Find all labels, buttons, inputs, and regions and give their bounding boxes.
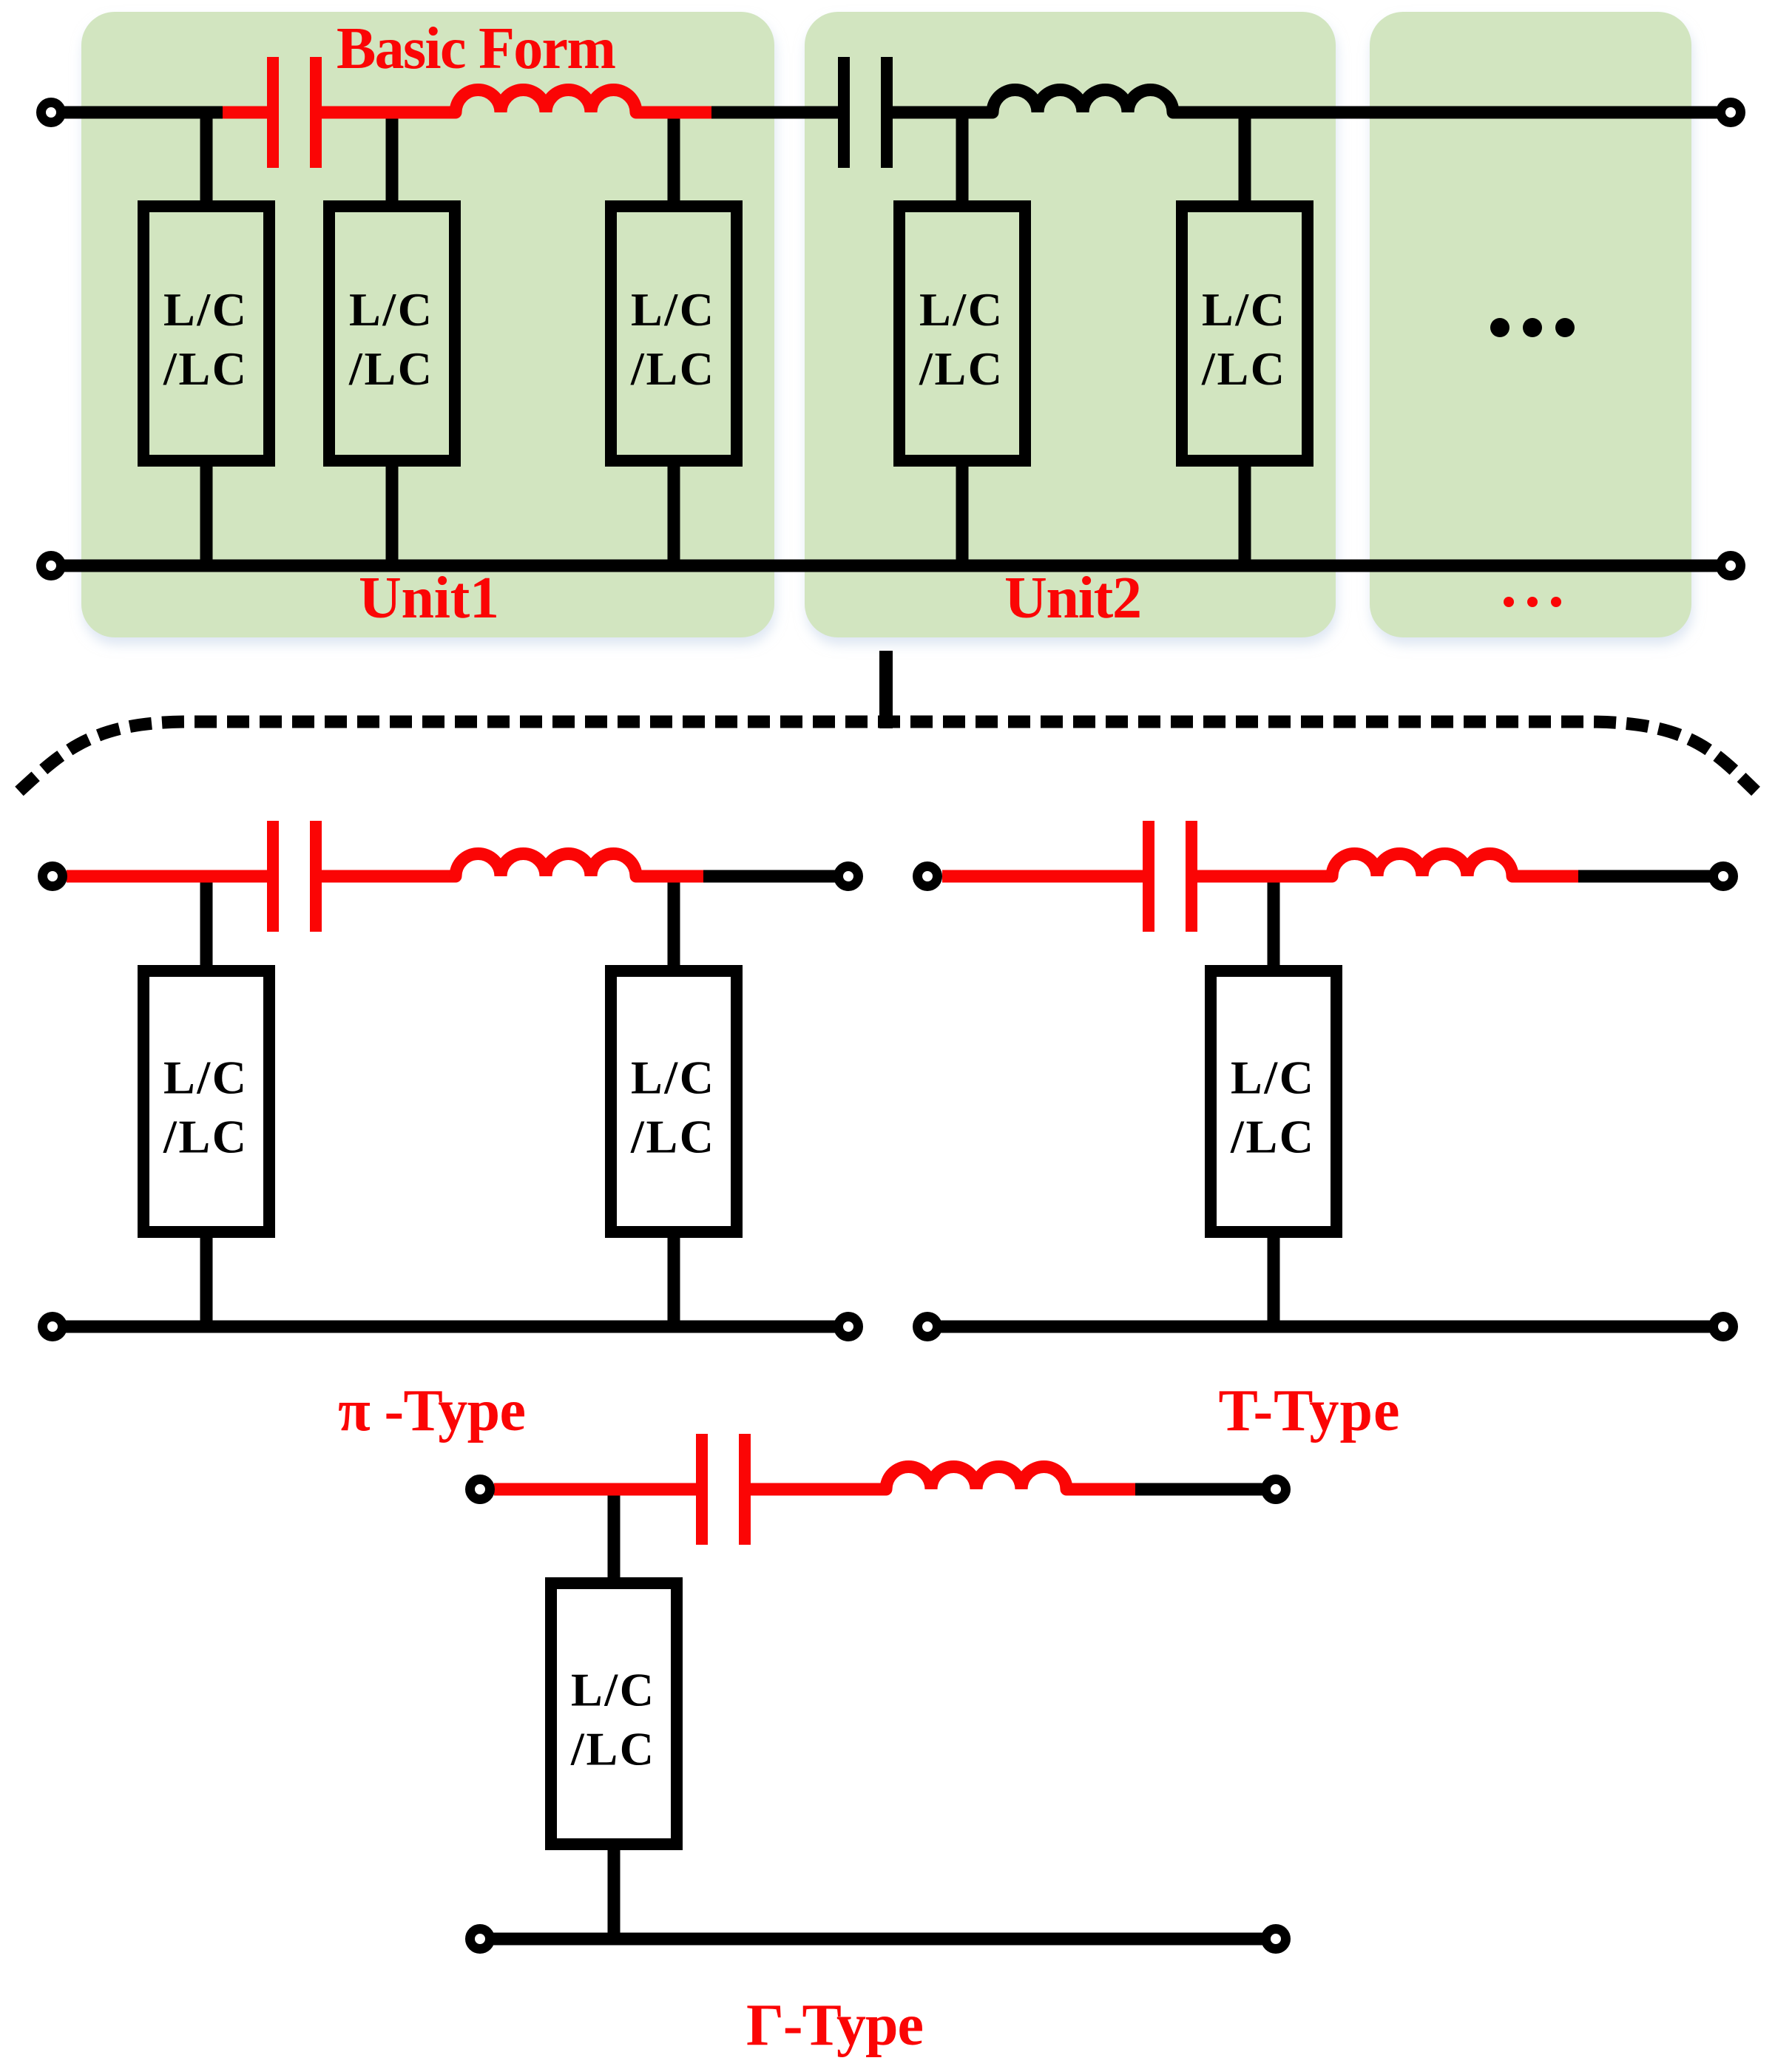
- inductor L2 (Unit2 series): [993, 89, 1173, 112]
- wire: Gamma-type shunt stub top: [608, 1489, 621, 1577]
- wire: shunt stub bottom of box 2: [386, 467, 399, 566]
- wire top rail: input terminal to C1 (black): [51, 106, 223, 119]
- shunt element box Z4: [899, 206, 1025, 461]
- wire Gamma-type top: red segment from input: [494, 1483, 696, 1496]
- wire node C: L1 out (red tail): [636, 106, 711, 119]
- terminal pi-type top-right: [839, 867, 859, 887]
- value label L/C /LC of box Z2: [348, 283, 432, 395]
- wire top rail: L2 to output terminal: [1173, 106, 1731, 119]
- svg-text:/LC: /LC: [1201, 342, 1285, 395]
- wire pi-type node: C to L (red): [322, 870, 456, 883]
- terminal T-type bottom-right: [1714, 1317, 1734, 1337]
- wire pi-type bottom rail: [53, 1321, 848, 1333]
- wire: pi-type left shunt stub bottom: [200, 1238, 213, 1327]
- svg-text:Unit2: Unit2: [1004, 566, 1142, 631]
- Unit2 highlight box: [805, 12, 1336, 637]
- svg-text:/LC: /LC: [630, 1111, 714, 1163]
- inductor L (Gamma-type series, red): [886, 1466, 1066, 1489]
- terminal Gamma-type bottom-right: [1266, 1929, 1286, 1949]
- ellipsis dots (more units, black): [1490, 318, 1575, 337]
- Unit1 highlight box: [81, 12, 774, 637]
- terminal Gamma-type top-right: [1266, 1480, 1286, 1500]
- svg-text:/LC: /LC: [1230, 1111, 1313, 1163]
- wire node B: C1 to L1 (red): [322, 106, 456, 119]
- value label L/C /LC of box pi-right: [630, 1052, 714, 1163]
- capacitor C2 (Unit2 series): [838, 57, 850, 168]
- terminal Gamma-type top-left: [470, 1480, 490, 1500]
- svg-text:L/C: L/C: [919, 283, 1002, 336]
- value label L/C /LC of box Z3: [630, 283, 714, 395]
- terminal pi-type top-left: [43, 867, 63, 887]
- ellipsis dots (unit label, red): [1504, 597, 1561, 607]
- svg-text:/LC: /LC: [348, 342, 432, 395]
- wire bottom rail (common return): [51, 560, 1731, 572]
- input terminal bottom-left: [41, 556, 61, 576]
- value label L/C /LC of box Gamma-shunt: [570, 1664, 654, 1775]
- shunt element box Z3: [611, 206, 737, 461]
- capacitor C (Gamma-type series, red): [696, 1434, 708, 1545]
- value label L/C /LC of box Z1: [163, 283, 246, 395]
- shunt element box Z2: [329, 206, 455, 461]
- svg-text:/LC: /LC: [163, 342, 246, 395]
- svg-text:T-Type: T-Type: [1219, 1378, 1400, 1443]
- svg-text:Basic Form: Basic Form: [337, 16, 616, 81]
- wire pi-type: L red tail: [636, 870, 703, 883]
- value label L/C /LC of box pi-left: [163, 1052, 246, 1163]
- capacitor C1 (Unit1 series, red): [267, 57, 279, 168]
- value label L/C /LC of box T-shunt: [1230, 1052, 1313, 1163]
- wire pi-type top: black tail to output: [703, 870, 848, 883]
- svg-text:L/C: L/C: [163, 1052, 246, 1104]
- wire: shunt stub bottom of box 3: [668, 467, 680, 566]
- output terminal top-right: [1721, 103, 1741, 123]
- wire: shunt stub bottom of box 5: [1239, 467, 1251, 566]
- svg-text:L/C: L/C: [571, 1664, 654, 1716]
- output terminal bottom-right: [1721, 556, 1741, 576]
- wire top rail: Unit1 to C2 (black): [711, 106, 838, 119]
- wire: T-type shunt stub bottom: [1268, 1238, 1280, 1327]
- wire top rail: highlighted red segment into C1: [223, 106, 267, 119]
- dashed expansion brace: [19, 722, 1756, 791]
- svg-text:/LC: /LC: [630, 342, 714, 395]
- capacitor C (pi-type series, red): [267, 821, 279, 932]
- wire: T-type shunt stub top: [1268, 876, 1280, 965]
- wire: shunt stub top of box 5: [1239, 112, 1251, 200]
- shunt element box Z1: [143, 206, 269, 461]
- svg-text:L/C: L/C: [349, 283, 432, 336]
- svg-text:L/C: L/C: [631, 1052, 714, 1104]
- inductor L (pi-type series, red): [456, 853, 636, 876]
- wire: pi-type left shunt stub top: [200, 876, 213, 965]
- svg-text:L/C: L/C: [631, 283, 714, 336]
- wire T-type node: C to L (red): [1197, 870, 1332, 883]
- wire node D: C2 to L2: [893, 106, 993, 119]
- shunt element box Z5: [1182, 206, 1308, 461]
- Unit3 (ellipsis) highlight box: [1370, 12, 1691, 637]
- svg-text:/LC: /LC: [919, 342, 1002, 395]
- inductor L1 (Unit1 series, red): [456, 89, 636, 112]
- wire: shunt stub top of box 4: [956, 112, 969, 200]
- terminal T-type top-right: [1714, 867, 1734, 887]
- wire T-type top: red segment from input: [942, 870, 1143, 883]
- wire: shunt stub bottom of box 1: [200, 467, 213, 566]
- wire: shunt stub top of box 3: [668, 112, 680, 200]
- svg-text:L/C: L/C: [1202, 283, 1285, 336]
- terminal T-type top-left: [918, 867, 938, 887]
- wire T-type top: black tail to output: [1578, 870, 1723, 883]
- value label L/C /LC of box Z4: [919, 283, 1002, 395]
- shunt element box pi-right: [611, 971, 737, 1232]
- terminal pi-type bottom-left: [43, 1317, 63, 1337]
- svg-text:/LC: /LC: [570, 1723, 654, 1775]
- wire: shunt stub top of box 1: [200, 112, 213, 200]
- wire Gamma-type: L red tail: [1066, 1483, 1135, 1496]
- svg-text:Unit1: Unit1: [359, 566, 499, 631]
- svg-text:/LC: /LC: [163, 1111, 246, 1163]
- terminal T-type bottom-left: [918, 1317, 938, 1337]
- wire T-type bottom rail: [927, 1321, 1723, 1333]
- inductor L (T-type series, red): [1332, 853, 1512, 876]
- shunt element box T-shunt: [1211, 971, 1336, 1232]
- input terminal top-left: [41, 103, 61, 123]
- shunt element box Gamma-shunt: [551, 1583, 677, 1844]
- svg-text:Γ-Type: Γ-Type: [746, 1993, 924, 2058]
- terminal Gamma-type bottom-left: [470, 1929, 490, 1949]
- wire: shunt stub top of box 2: [386, 112, 399, 200]
- value label L/C /LC of box Z5: [1201, 283, 1285, 395]
- svg-text:π -Type: π -Type: [338, 1378, 526, 1443]
- svg-text:L/C: L/C: [1231, 1052, 1313, 1104]
- wire Gamma-type bottom rail: [480, 1933, 1276, 1946]
- wire T-type: L red tail: [1512, 870, 1578, 883]
- wire: vertical connector from ladder to expansion brace: [879, 651, 893, 728]
- capacitor C (T-type series, red): [1143, 821, 1154, 932]
- wire pi-type top: red main segment: [67, 870, 267, 883]
- wire: shunt stub bottom of box 4: [956, 467, 969, 566]
- wire: pi-type right shunt stub bottom: [668, 1238, 680, 1327]
- wire: Gamma-type shunt stub bottom: [608, 1850, 621, 1939]
- wire: pi-type right shunt stub top: [668, 876, 680, 965]
- svg-text:L/C: L/C: [163, 283, 246, 336]
- shunt element box pi-left: [143, 971, 269, 1232]
- wire Gamma-type node: C to L (red): [751, 1483, 886, 1496]
- wire Gamma-type top: black tail to output: [1135, 1483, 1276, 1496]
- terminal pi-type bottom-right: [839, 1317, 859, 1337]
